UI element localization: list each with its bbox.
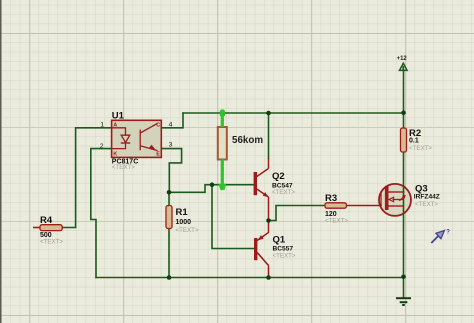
power +12 symbol <box>397 56 408 71</box>
junction ground node <box>401 275 406 280</box>
svg-text:<TEXT>: <TEXT> <box>409 145 432 152</box>
svg-text:<TEXT>: <TEXT> <box>112 164 135 171</box>
wire U1 pin1 to R4 <box>62 128 112 228</box>
junction R1 bottom on rail <box>167 275 172 280</box>
wire R1 bottom lead to rail <box>168 229 170 278</box>
resistor R3 <box>325 193 382 225</box>
svg-text:C: C <box>156 122 160 128</box>
wire U1 pin4 up to top rail <box>161 113 183 128</box>
junction R1 top node <box>167 190 172 195</box>
wire ground stem <box>403 277 405 298</box>
svg-text:<TEXT>: <TEXT> <box>272 189 295 196</box>
wire selected 56kom top lead (highlighted) <box>220 110 225 128</box>
wire bottom ground rail <box>96 277 404 279</box>
junction base node <box>210 182 215 187</box>
svg-text:E: E <box>156 151 160 157</box>
wire U1 pin2 down-left to bottom rail <box>91 149 112 278</box>
wire R2 top lead <box>403 113 405 128</box>
wire R1 top lead <box>168 192 170 205</box>
opto-coupler U1 <box>100 110 173 171</box>
resistor R4 <box>33 215 63 246</box>
ground <box>396 298 411 305</box>
cursor pointer <box>431 230 450 243</box>
svg-text:0.1: 0.1 <box>409 138 419 145</box>
svg-text:2: 2 <box>100 143 104 150</box>
svg-text:K: K <box>113 151 117 157</box>
mosfet Q3 body circle <box>379 184 411 216</box>
mosfet Q3 IRFZ44Z internals <box>381 183 440 210</box>
resistor R2 <box>401 128 433 152</box>
junction Q2 collector on top rail <box>266 111 271 116</box>
svg-text:BC557: BC557 <box>273 246 294 253</box>
svg-text:<TEXT>: <TEXT> <box>325 218 348 225</box>
svg-text:<TEXT>: <TEXT> <box>176 227 199 234</box>
svg-text:3: 3 <box>169 142 173 149</box>
transistor Q1 BC557 <box>254 221 296 278</box>
svg-text:Q2: Q2 <box>272 171 285 182</box>
svg-text:<TEXT>: <TEXT> <box>415 201 438 208</box>
wire selected 56kom bottom lead (highlighted) <box>218 160 226 191</box>
junction Q1 collector on rail <box>266 275 271 280</box>
wire Q3 source to rail <box>403 192 405 277</box>
svg-text:1: 1 <box>100 122 104 129</box>
wire R2 bottom to Q3 drain <box>403 152 405 192</box>
junction +12/R2 on top rail <box>401 110 406 115</box>
svg-text:R3: R3 <box>325 193 337 204</box>
wire R1 node to Q2 base <box>169 185 254 193</box>
wire emitter node to R3 <box>269 206 326 221</box>
svg-text:56kom: 56kom <box>232 135 263 146</box>
svg-text:A: A <box>113 122 117 128</box>
wire top rail to Q2 collector <box>268 113 270 158</box>
svg-text:Q1: Q1 <box>273 235 286 246</box>
svg-text:R4: R4 <box>40 215 53 226</box>
svg-text:<TEXT>: <TEXT> <box>273 253 296 260</box>
svg-text:U1: U1 <box>112 110 125 121</box>
transistor Q2 BC547 <box>254 158 296 221</box>
wire base node down to Q1 base <box>212 185 254 249</box>
svg-text:4: 4 <box>169 122 173 129</box>
wire U1 pin3 down to R1 node <box>161 149 181 193</box>
svg-text:R1: R1 <box>176 207 189 218</box>
resistor 56kom (selected box style) <box>218 127 264 160</box>
resistor R1 <box>166 206 199 235</box>
svg-text:+12: +12 <box>397 56 408 62</box>
svg-text:?: ? <box>446 230 450 236</box>
wire +12 stem <box>403 70 405 113</box>
wire top +12 rail <box>183 112 404 114</box>
junction emitter node <box>266 218 271 223</box>
svg-text:1000: 1000 <box>176 219 192 226</box>
svg-text:<TEXT>: <TEXT> <box>40 239 63 246</box>
svg-text:IRFZ44Z: IRFZ44Z <box>414 194 440 201</box>
